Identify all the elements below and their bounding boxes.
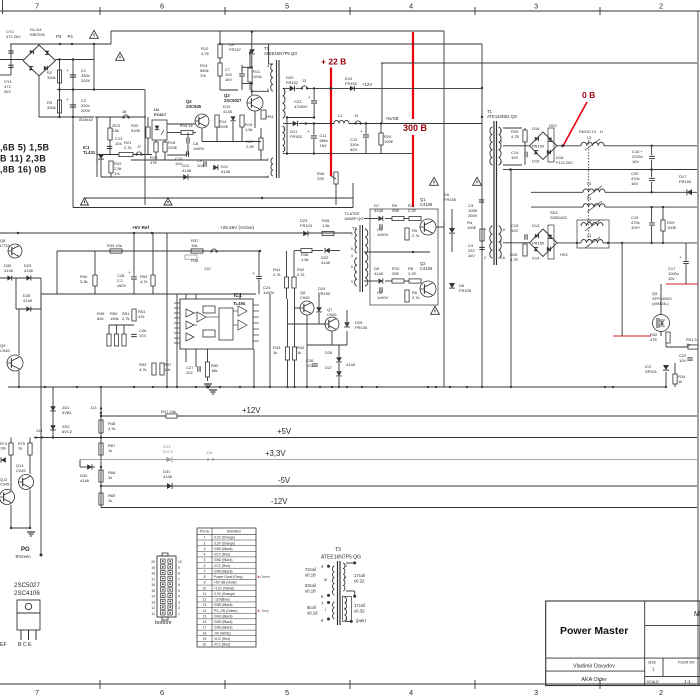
svg-text:2,7k: 2,7k [412,295,420,300]
svg-text:FR152: FR152 [345,81,358,86]
svg-text:3: 3 [204,547,206,551]
connector pin L13 [161,599,166,603]
capacitor C15 [524,234,526,240]
svg-text:16V: 16V [320,143,327,148]
bridge diode D2 [45,51,49,55]
bridge diode D13b [548,235,552,239]
T3 detail winding II [343,563,345,591]
resistor R50b [205,362,209,377]
connector X1 body [157,556,176,617]
table row line 2 [197,545,256,547]
resistor R26 [523,244,527,256]
svg-text:8: 8 [204,575,206,579]
T3 detail wire mid [346,590,355,592]
wire top rail aux [111,30,444,32]
svg-text:4148: 4148 [321,260,331,265]
svg-text:22E: 22E [317,176,324,181]
svg-text:VCC (Red): VCC (Red) [214,564,230,568]
wire x177 col [176,294,178,387]
svg-text:KBP206: KBP206 [30,32,45,37]
svg-text:+12V: +12V [242,406,261,415]
mosfet Q5 [653,315,670,332]
svg-text:R47 24k: R47 24k [161,409,176,414]
svg-text:3,3V (Orange): 3,3V (Orange) [214,592,235,596]
wire R22 bottom stub [110,173,112,177]
resistor R12 [218,44,222,58]
svg-text:2: 2 [178,606,180,610]
svg-text:(pair): (pair) [356,618,367,623]
svg-text:2: 2 [659,2,663,11]
svg-text:50V: 50V [350,147,357,152]
capacitor C1 [70,74,77,76]
svg-text:17: 17 [203,626,207,630]
IC1 right pin 4 [253,322,259,324]
capacitor C13 [107,145,113,147]
svg-text:x0.22: x0.22 [354,579,365,584]
title block size divider [662,658,664,676]
wire C9 C10 row [167,154,186,156]
table row line 14 [197,612,256,614]
svg-text:GND (Black): GND (Black) [214,569,233,573]
svg-text:47x50V: 47x50V [294,104,308,109]
inductor L3 rail1 [581,145,604,147]
wire q5 source [660,332,662,337]
frame tick bottom [474,680,476,689]
svg-text:3: 3 [534,2,538,11]
resistor R2 [57,70,61,83]
resistor R21 body [119,152,133,156]
svg-text:1k: 1k [273,350,277,355]
wire Q4 base row [167,123,195,125]
wire bridge plus out [56,59,95,61]
wire output rail3 [531,191,697,193]
T3 detail winding I [333,602,335,619]
wire t1 to bridge1 [503,145,530,147]
table row line 12 [197,601,256,603]
connector pin L12 [161,605,166,609]
T3 detail wire pin3 [346,620,351,622]
frame tick top [349,7,351,15]
node aux sec1 [306,87,308,89]
svg-text:39E: 39E [392,208,399,213]
svg-text:+28,49V (Active): +28,49V (Active) [220,225,255,230]
resistor R5 body [405,228,409,240]
IC1 left pin 8 [174,337,180,339]
transistor Q2 [420,281,436,297]
transformer T2 winding lower left [355,258,357,286]
diode D7 [378,216,382,221]
svg-text:15: 15 [203,614,207,618]
svg-text:4148: 4148 [374,271,384,276]
warning triangle 2 [116,52,125,60]
svg-text:8: 8 [351,247,353,251]
frame tick bottom [599,680,601,689]
svg-text:6: 6 [160,2,164,11]
transformer T1 core [493,121,495,265]
ground IC1 [204,383,212,385]
wire C8 top [187,133,189,139]
table row line 10 [197,590,256,592]
svg-text:4,7E: 4,7E [510,257,519,262]
wire R13 bottom col [219,76,221,90]
ground bus gnd symbol [209,389,217,391]
wire R46 bottom [335,184,337,205]
wire R2 R3 column [59,60,61,118]
resistor R34 [673,374,677,384]
svg-text:VCC (Red): VCC (Red) [214,643,230,647]
capacitor C12 symbol [363,134,369,136]
wire c16 col [651,146,653,155]
IC1 left pin 1 [174,302,180,304]
capacitor C8 [186,138,188,144]
capacitor C14 [524,152,526,158]
svg-text:9coil: 9coil [307,605,316,610]
wire q5 drain [660,284,662,315]
svg-text:4,7E: 4,7E [511,134,520,139]
frame tick top [99,7,101,15]
wire r31 row [666,346,688,348]
wire c17 col [685,243,687,261]
capacitor C3 [479,199,485,201]
node R11 top [251,66,253,68]
wire R14 bottom [216,127,218,142]
svg-text:PG: PG [21,547,30,553]
resistor R50 body [114,334,118,346]
svg-text:,8В 16) 0В: ,8В 16) 0В [0,165,47,175]
jumper J8 [122,116,124,118]
choke pair bracket [577,220,609,248]
svg-text:510E: 510E [131,128,141,133]
diode D28 [26,306,30,311]
svg-text:4: 4 [178,595,180,599]
frame tick top [474,7,476,15]
junction ground bus [361,386,363,388]
warning triangle 6 [473,177,482,185]
svg-text:5: 5 [178,589,180,593]
wire AC top [10,43,111,45]
IC1 inner wires [194,312,197,314]
capacitor C22 [687,357,693,359]
svg-text:14: 14 [151,595,155,599]
svg-text:47E: 47E [150,160,157,165]
red wire segment near C17 [666,283,698,285]
wire pin5 row [252,90,269,92]
svg-text:Power Good (Grey): Power Good (Grey) [214,575,243,579]
capacitor C28 [131,276,137,278]
wire +12V row [283,87,290,89]
svg-text:+: + [308,95,311,100]
diode D26 [336,357,342,362]
svg-text:PR150: PR150 [355,325,368,330]
wire c19 col [651,207,653,222]
svg-text:Grey: Grey [262,609,270,613]
svg-text:L2: L2 [338,113,343,118]
wire R16 right stub [193,132,196,134]
svg-text:5: 5 [285,2,289,11]
TL431 symbol [98,154,104,159]
svg-text:,6В 5) 1,5В: ,6В 5) 1,5В [0,143,50,153]
svg-text:1k: 1k [18,447,22,451]
IC1 out1 [238,306,247,316]
node rails [650,145,652,147]
wire C23 bottom row [287,117,314,119]
wire R12 top [219,31,221,44]
svg-text:100E: 100E [467,225,477,230]
capacitor C9 sym [203,161,205,167]
inductor L3 rail3 [583,191,605,193]
wire Q4 emitter [201,128,203,142]
svg-text:L3: L3 [587,234,591,238]
diode D19 [350,86,354,91]
wire T3 pin4 up [268,44,270,64]
capacitor C2 [70,104,77,106]
wire Q7 base stub [288,323,326,325]
svg-text:2,7k: 2,7k [412,233,420,238]
diode D6 body [449,283,455,288]
diode D11 [213,165,218,171]
svg-text:4,7k: 4,7k [139,367,147,372]
svg-text:5,6: 5,6 [500,256,505,260]
node red crossing [329,87,332,90]
svg-text:1,5k: 1,5k [245,127,253,132]
capacitor C6 [379,287,381,293]
wire R49 col [108,325,110,334]
resistor R15 [240,115,244,127]
wire TL431 row [97,154,119,156]
svg-text:20: 20 [203,643,207,647]
wire d5 col [451,209,453,228]
resistor R57 [160,363,164,375]
junction ground bus [239,386,241,388]
svg-text:C4106: C4106 [420,266,433,271]
svg-text:5VB1: 5VB1 [62,410,73,415]
node input2 [58,116,60,118]
wire R17 bottom [260,150,262,160]
svg-text:SIZE: SIZE [648,661,657,665]
svg-text:5: 5 [204,558,206,562]
svg-text:2,7k: 2,7k [273,272,281,277]
svg-text:2SC5027: 2SC5027 [224,98,242,103]
wire C28 col [133,233,135,276]
svg-text:-12V: -12V [271,497,288,506]
T1 primary winding [490,127,493,165]
diode D25 [344,322,350,327]
svg-text:x0,18: x0,18 [305,573,316,578]
IC1 left pin 2 [174,307,180,309]
jumper J18 [207,458,209,460]
svg-text:I: I [325,607,326,612]
capacitor C24 [256,275,262,277]
table row line 19 [197,640,256,642]
table row line 8 [197,578,256,580]
svg-text:'8'Green: '8'Green [15,554,31,559]
package TO-220 legs [20,630,22,640]
wire R15 bottom [241,127,243,142]
svg-text:J14: J14 [36,428,43,433]
wire r29 col [662,207,664,220]
T3 detail dot5 [327,594,330,597]
junction ground bus [331,386,333,388]
svg-text:HS2: HS2 [560,252,569,257]
svg-text:2: 2 [204,541,206,545]
wire rail +3.3V [80,459,697,461]
wire R41 col [286,251,288,277]
wire r36 row [294,250,301,252]
svg-text:4: 4 [351,254,353,258]
diode D30 [7,275,11,280]
wire R20 top stub [147,117,149,127]
svg-text:8: 8 [178,572,180,576]
wire C1 C2 column [72,60,74,118]
svg-text:M: M [694,611,700,618]
wire IC1 cols [185,349,187,362]
node D18 out [561,144,564,147]
wire d32 row [80,466,95,468]
svg-text:2,2E: 2,2E [408,271,417,276]
junction ground bus [269,386,271,388]
junction ground bus [286,386,288,388]
svg-text:1k: 1k [108,498,112,503]
table outer box [197,528,256,647]
node r37 [259,250,261,252]
svg-text:4,7k: 4,7k [108,426,116,431]
node input1 [58,58,60,60]
T3 detail winding III [333,566,335,595]
resistor R10 body [392,279,404,283]
wire bridge bottom [38,76,40,117]
junction ground bus [152,386,154,388]
T3 detail dot7 [327,601,330,604]
table row line 9 [197,584,256,586]
svg-text:Ø18x42: Ø18x42 [79,117,94,122]
transformer T2 winding right [365,229,368,286]
inductor L3 rail4 [583,206,605,208]
svg-text:2SC945: 2SC945 [186,104,202,109]
svg-text:D16: D16 [532,126,540,131]
node d32 [100,466,102,468]
svg-text:L3: L3 [587,182,591,186]
IC1 left pin 4 [174,317,180,319]
node +12V join [481,87,483,89]
node rail5 nodes [576,242,578,244]
transistor Q3 [247,95,263,111]
svg-text:9: 9 [204,581,206,585]
resistor R17 [259,138,263,150]
T1 secondary lower [499,226,502,258]
wire output rail4 [531,206,697,208]
svg-text:R38: R38 [191,258,199,263]
wire output rail2 [510,169,697,171]
resistor R36 body [301,248,312,252]
svg-text:+: + [128,270,131,275]
svg-text:13: 13 [151,600,155,604]
junction ground bus [306,386,308,388]
svg-text:14: 14 [203,609,207,613]
svg-text:PR150: PR150 [532,241,545,246]
wire R17 top [260,128,262,138]
table row line 13 [197,607,256,609]
jumper J7 [135,153,137,155]
svg-text:+: + [252,271,255,276]
capacitor C5 [379,224,381,230]
wire R18 bottom stub [164,152,166,160]
connector pin L20 [161,559,166,563]
zener ZD2 [50,425,56,430]
transistor Q1 [420,219,436,235]
svg-text:1k: 1k [297,350,301,355]
wire mid input row [57,89,145,91]
resistor R23 [108,128,112,140]
svg-text:4,7k: 4,7k [140,279,148,284]
svg-text:16: 16 [203,620,207,624]
node D9 top [251,30,254,33]
svg-text:250V: 250V [468,213,478,218]
wire R41 bottom [286,288,288,299]
transformer T3 secondary upper [283,88,286,118]
svg-text:1k: 1k [108,448,112,453]
svg-text:19: 19 [203,637,207,641]
diode D5 body [449,228,455,233]
junction ground bus [176,386,178,388]
junction ground bus [435,386,437,388]
wire R11 col [249,53,251,69]
svg-text:Power Master: Power Master [560,625,628,637]
wire left col aux [96,117,98,177]
table row line 5 [197,562,256,564]
capacitor C23 [311,100,317,102]
capacitor CY1 symbol upper [8,64,14,66]
svg-text:FR155: FR155 [444,197,457,202]
junction ground bus [510,386,512,388]
capacitor C20 [649,177,655,179]
driver cluster box [370,209,438,305]
svg-text:5: 5 [267,88,269,92]
svg-text:2SC5027: 2SC5027 [14,582,40,589]
wire vertical x381 [381,63,383,124]
svg-text:4: 4 [500,160,502,164]
sheet border bottom ruler line [0,683,700,685]
diode D27 [336,371,342,376]
node t1 out [509,168,512,171]
svg-text:4: 4 [409,2,413,11]
bridge diode D4 [44,66,48,70]
resistor R24 [379,133,383,145]
svg-text:1: 1 [484,227,486,231]
transformer T2 winding upper left [355,229,357,253]
svg-text:J13: J13 [90,405,97,410]
svg-text:2,0E: 2,0E [246,144,255,149]
transformer T3 aux winding [271,158,273,176]
wire R40 col [94,251,96,275]
wire R44 col [294,325,296,347]
jumper J3 [301,87,303,89]
IC1 right pin 5 [253,328,259,330]
node input mid [58,88,60,90]
aux ground wire [84,197,353,199]
resistor R41 [284,277,288,288]
svg-text:1x50V: 1x50V [377,232,389,237]
table row line 4 [197,556,256,558]
svg-text:FR157: FR157 [229,47,242,52]
connector pin R3 [168,599,173,603]
junction ground bus [253,386,255,388]
svg-text:x0,18: x0,18 [305,589,316,594]
svg-text:2SC4106: 2SC4106 [14,590,40,597]
junction ground bus [466,386,468,388]
resistor R65 [99,493,103,505]
red wire segment near R32 [613,335,651,337]
svg-text:102: 102 [186,370,193,375]
